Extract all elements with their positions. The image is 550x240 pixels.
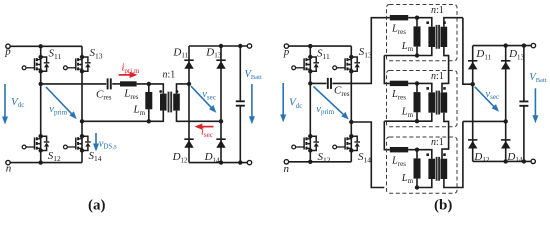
node output terminal top (b) bbox=[531, 43, 535, 47]
node junction bottom leg A (b) bbox=[308, 160, 312, 164]
wire rectifier bottom rail (a) bbox=[189, 162, 247, 164]
inductor Lres module 1 bbox=[390, 15, 408, 20]
transformer module 2 polarity mark secondary bbox=[443, 87, 446, 90]
transistor S14 (b) bbox=[333, 134, 360, 153]
svg-text:Cres: Cres bbox=[96, 88, 112, 101]
capacitor Cres (b) bbox=[328, 78, 331, 89]
svg-text:isec: isec bbox=[201, 127, 213, 139]
svg-text:n: n bbox=[6, 162, 12, 174]
arrow vDS,s bbox=[95, 133, 97, 146]
svg-text:Vdc: Vdc bbox=[289, 97, 302, 110]
node mid leg B (b) bbox=[349, 120, 353, 124]
svg-text:Lres: Lres bbox=[391, 89, 406, 101]
wire primary bottom module 1 bbox=[384, 47, 432, 56]
wire bottom rail bridge (b) bbox=[289, 161, 352, 163]
wire Cres to feed riser (b) bbox=[332, 18, 389, 84]
wire top rail bridge (a) bbox=[10, 45, 82, 47]
wire D13 AC node (b) bbox=[463, 120, 506, 122]
node cap bottom (a) bbox=[238, 160, 242, 164]
wire primary bottom return (a) bbox=[82, 111, 163, 122]
wire secondary bottom module 3 bbox=[444, 121, 463, 187]
arrow isec red (a) bbox=[201, 126, 214, 128]
transformer module 1 polarity mark secondary bbox=[443, 21, 446, 24]
module 3 dashed box bbox=[387, 137, 458, 193]
node n terminal (b) bbox=[284, 160, 288, 164]
transformer module 2 primary winding bbox=[428, 92, 435, 112]
diode D11 bbox=[184, 59, 193, 68]
node junction top leg A (b) bbox=[308, 44, 312, 48]
svg-text:p: p bbox=[4, 46, 11, 58]
wire rectifier leg D13 D14 (a) bbox=[220, 46, 222, 163]
wire mid leg B to return riser (b) bbox=[351, 122, 384, 188]
wire Lres to transformer (a) bbox=[137, 84, 164, 94]
svg-text:Lm: Lm bbox=[401, 41, 414, 53]
node mid leg A (b) bbox=[308, 81, 312, 85]
transformer T (a) primary winding bbox=[160, 94, 167, 111]
svg-text:n:1: n:1 bbox=[431, 71, 444, 82]
transformer module 3 polarity mark secondary bbox=[443, 153, 446, 156]
node junction top leg A bbox=[39, 44, 43, 48]
svg-text:Cres: Cres bbox=[334, 85, 350, 98]
transformer T (a) core bbox=[169, 92, 172, 113]
node mid leg A bbox=[39, 82, 43, 86]
wire leg A (a) bbox=[40, 46, 42, 162]
wire rectifier leg D13 D14 (b) bbox=[505, 46, 507, 162]
diode D13 bbox=[216, 59, 225, 68]
transformer T (a) polarity dot primary bbox=[159, 90, 162, 93]
svg-text:D14: D14 bbox=[506, 151, 522, 164]
svg-text:vprim: vprim bbox=[316, 104, 334, 116]
wire primary bottom module 3 bbox=[417, 179, 432, 188]
inductor Lm module 3 bbox=[416, 150, 418, 188]
wire series link module 1 to module 2 bbox=[384, 56, 390, 84]
wire rectifier top rail (a) bbox=[189, 45, 247, 47]
inductor Lres (a) bbox=[120, 81, 137, 86]
transformer module 3 secondary winding bbox=[441, 159, 448, 179]
node Lm top module 1 bbox=[415, 16, 419, 20]
svg-text:(b): (b) bbox=[434, 198, 452, 214]
wire secondary top module 1 to bus bbox=[444, 18, 463, 27]
wire secondary top bus to D11 node (b) bbox=[463, 18, 473, 85]
svg-text:Lres: Lres bbox=[123, 88, 139, 101]
diode D14 bbox=[216, 138, 225, 147]
wire rectifier leg D11 D12 (a) bbox=[188, 46, 190, 163]
wire top rail bridge (b) bbox=[289, 45, 352, 47]
arrow VBatt (b) bbox=[534, 88, 536, 117]
wire secondary bottom (a) bbox=[177, 111, 222, 122]
node Lm top module 3 bbox=[415, 148, 419, 152]
node top rail D13 (b) bbox=[504, 43, 508, 47]
node p terminal bbox=[6, 44, 10, 48]
svg-text:D13: D13 bbox=[205, 46, 221, 59]
node D11 AC junction (b) bbox=[471, 82, 475, 86]
svg-text:D12: D12 bbox=[172, 151, 188, 164]
transistor S11 (b) bbox=[292, 55, 319, 74]
svg-text:p: p bbox=[283, 46, 290, 58]
svg-text:S12: S12 bbox=[318, 151, 331, 164]
wire secondary bottom module 1 link bbox=[442, 47, 449, 92]
wire Lres to transformer module 2 bbox=[408, 83, 432, 92]
transformer T (a) secondary winding bbox=[173, 94, 180, 111]
arrow vprim (a) bbox=[46, 87, 73, 115]
diode D12 bbox=[184, 138, 193, 147]
wire cap to inductor (a) bbox=[112, 83, 120, 85]
arrow ipri,m red bbox=[119, 74, 131, 76]
svg-text:D13: D13 bbox=[508, 48, 524, 61]
inductor Lres module 2 bbox=[390, 81, 408, 86]
node sec bottom junction (a) bbox=[219, 119, 223, 123]
transformer module 3 primary winding bbox=[428, 159, 435, 179]
diode D13 (b) bbox=[501, 60, 510, 69]
capacitor output filter (b) bbox=[523, 46, 525, 162]
node Lm bottom module 1 bbox=[415, 53, 419, 57]
svg-text:Lm: Lm bbox=[401, 173, 414, 185]
node output terminal bottom (b) bbox=[531, 159, 535, 163]
diode D11 (b) bbox=[468, 60, 477, 69]
node bottom rail D14 (b) bbox=[504, 159, 508, 163]
svg-text:S13: S13 bbox=[359, 46, 372, 59]
svg-text:S11: S11 bbox=[317, 48, 330, 61]
svg-text:ipri,m: ipri,m bbox=[122, 63, 140, 75]
transformer T (a) polarity dot secondary bbox=[176, 90, 179, 93]
inductor Lm module 2 bbox=[416, 83, 418, 121]
node junction bottom leg A bbox=[39, 160, 43, 164]
node n terminal bbox=[6, 160, 10, 164]
node cap top (b) bbox=[522, 43, 526, 47]
svg-text:n:1: n:1 bbox=[431, 5, 444, 16]
svg-text:Vdc: Vdc bbox=[11, 96, 24, 109]
node top rail D13 (a) bbox=[219, 44, 223, 48]
node cap top (a) bbox=[238, 44, 242, 48]
svg-text:D11: D11 bbox=[475, 48, 491, 61]
diode D14 (b) bbox=[501, 139, 510, 148]
wire rectifier top rail (b) bbox=[473, 45, 532, 47]
node output terminal top (a) bbox=[247, 44, 251, 48]
transformer module 2 core bbox=[437, 91, 440, 115]
transformer module 1 core bbox=[437, 25, 440, 49]
arrow vsec (b) bbox=[475, 87, 495, 108]
capacitor output filter (a) bbox=[239, 46, 241, 163]
node mid leg B bbox=[80, 119, 84, 123]
svg-text:S14: S14 bbox=[89, 150, 102, 163]
arrow Vdc (a) bbox=[4, 84, 6, 119]
node Lm bottom module 2 bbox=[415, 119, 419, 123]
transistor S11 bbox=[22, 55, 49, 74]
svg-text:vsec: vsec bbox=[486, 89, 500, 101]
node output terminal bottom (a) bbox=[247, 160, 251, 164]
inductor Lres module 3 bbox=[390, 147, 408, 152]
svg-text:(a): (a) bbox=[88, 198, 106, 214]
svg-text:vDS,s: vDS,s bbox=[99, 138, 117, 150]
svg-text:S11: S11 bbox=[49, 48, 62, 61]
wire leg B (b) bbox=[350, 46, 352, 162]
svg-text:Lres: Lres bbox=[391, 156, 406, 168]
wire mid leg A to Cres (b) bbox=[310, 82, 326, 84]
inductor Lm module 1 bbox=[416, 18, 418, 56]
transformer module 3 core bbox=[437, 157, 440, 181]
wire leg B (a) bbox=[81, 46, 83, 162]
transistor S14 bbox=[64, 134, 91, 153]
svg-text:S12: S12 bbox=[48, 150, 61, 163]
svg-text:Lm: Lm bbox=[401, 107, 414, 119]
module 1 dashed box bbox=[387, 5, 458, 61]
node Lm bottom (a) bbox=[147, 119, 151, 123]
node D13 AC junction (b) bbox=[504, 119, 508, 123]
wire secondary bottom module 2 link bbox=[442, 113, 449, 159]
wire Lres to transformer module 1 bbox=[408, 18, 432, 27]
transistor S12 (b) bbox=[292, 134, 319, 153]
wire leg A (b) bbox=[309, 46, 311, 162]
wire primary bottom module 2 bbox=[384, 113, 432, 122]
svg-text:S13: S13 bbox=[90, 47, 103, 60]
svg-text:Lm: Lm bbox=[133, 104, 146, 117]
svg-text:D11: D11 bbox=[172, 46, 188, 59]
wire rectifier bottom rail (b) bbox=[473, 160, 531, 162]
wire rectifier leg D11 D12 (b) bbox=[472, 46, 474, 162]
diode D12 (b) bbox=[468, 139, 477, 148]
arrow vsec (a) bbox=[191, 86, 212, 108]
transformer module 3 polarity mark primary bbox=[426, 153, 429, 156]
arrow vprim (b) bbox=[314, 87, 345, 116]
node sec top junction (a) bbox=[187, 82, 191, 86]
node Lm bottom module 3 bbox=[415, 185, 419, 189]
module 2 dashed box bbox=[387, 71, 458, 127]
arrow VBatt (a) bbox=[251, 84, 253, 118]
wire bottom rail bridge (a) bbox=[10, 162, 82, 164]
wire Lres to transformer module 3 bbox=[408, 150, 432, 159]
wire series branch (a) bbox=[41, 83, 107, 85]
transistor S12 bbox=[22, 134, 49, 153]
svg-text:Lres: Lres bbox=[391, 24, 406, 36]
svg-text:D12: D12 bbox=[473, 151, 489, 164]
wire series link module 2 to module 3 bbox=[384, 121, 390, 150]
capacitor Cres (a) bbox=[108, 78, 111, 89]
transformer module 1 secondary winding bbox=[441, 27, 448, 47]
inductor Lm (a) bbox=[148, 84, 150, 121]
node Lm top module 2 bbox=[415, 81, 419, 85]
svg-text:n:1: n:1 bbox=[431, 137, 444, 148]
node p terminal (b) bbox=[284, 44, 288, 48]
node cap bottom (b) bbox=[522, 159, 526, 163]
svg-text:n:1: n:1 bbox=[163, 69, 176, 80]
svg-text:vsec: vsec bbox=[202, 89, 216, 101]
transistor S13 (b) bbox=[333, 55, 360, 74]
transistor S13 bbox=[64, 55, 91, 74]
transformer module 2 polarity mark primary bbox=[426, 87, 429, 90]
svg-text:n: n bbox=[284, 163, 290, 175]
arrow Vdc (b) bbox=[282, 83, 284, 116]
transformer module 1 polarity mark primary bbox=[426, 21, 429, 24]
svg-text:VBatt: VBatt bbox=[245, 69, 262, 81]
wire secondary top (a) bbox=[177, 84, 190, 94]
transformer module 1 primary winding bbox=[428, 27, 435, 47]
node bottom rail D14 (a) bbox=[219, 160, 223, 164]
svg-text:VBatt: VBatt bbox=[529, 72, 546, 84]
transformer module 2 secondary winding bbox=[441, 92, 448, 112]
svg-text:D14: D14 bbox=[204, 151, 220, 164]
node Lm top (a) bbox=[147, 82, 151, 86]
svg-text:S14: S14 bbox=[358, 151, 371, 164]
